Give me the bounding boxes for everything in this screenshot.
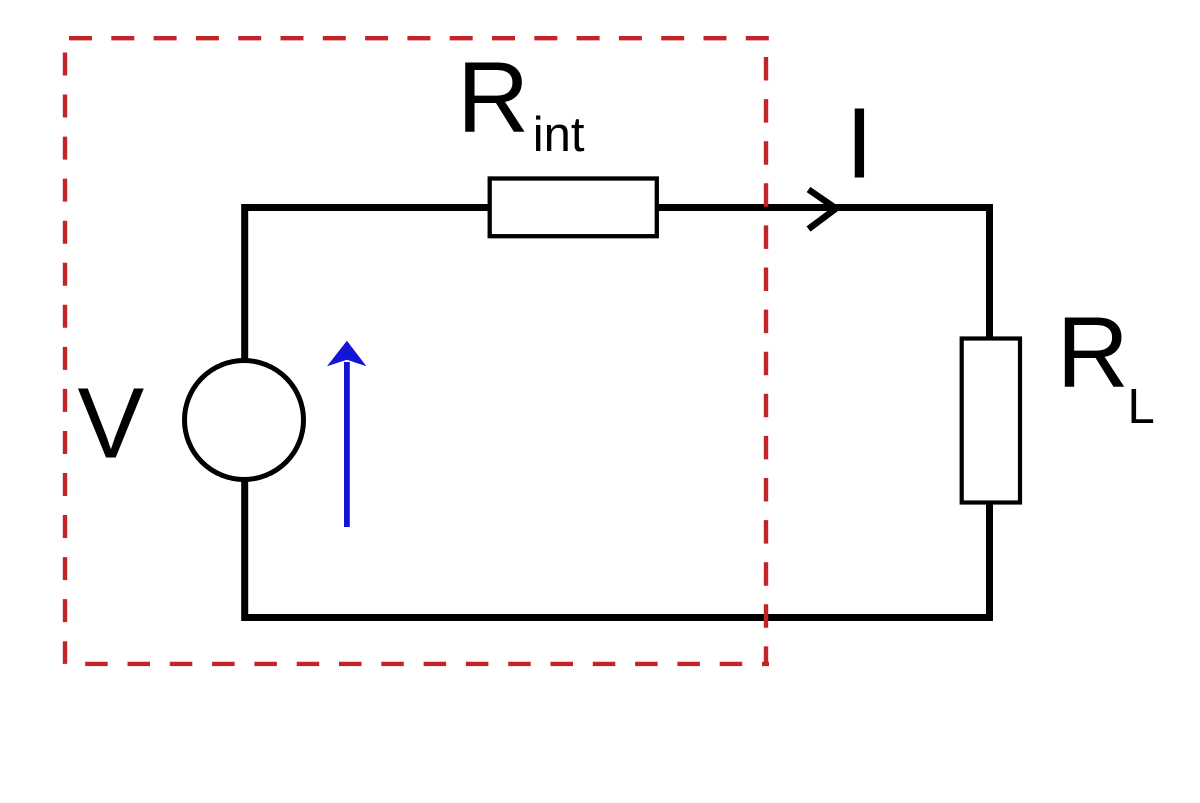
- blue emf arrow head: [327, 341, 366, 366]
- wire: V positive terminal up and top wire to R_int: [245, 208, 660, 360]
- svg-text:V: V: [78, 368, 145, 480]
- blue emf arrow shaft: [344, 362, 350, 527]
- svg-text:I: I: [846, 88, 874, 200]
- source boundary box: left edge (red dashed): [63, 53, 67, 664]
- resistor R_L (box): [962, 339, 1020, 503]
- source boundary box: bottom edge (red dashed): [85, 662, 769, 666]
- wire: R_L bottom, bottom return wire, up to V negative terminal: [245, 480, 990, 618]
- source boundary box: right edge (red dashed): [764, 57, 768, 664]
- resistor R_int (box): [490, 179, 657, 237]
- wire: R_int to top-right corner, down to R_L top: [650, 208, 990, 346]
- current direction arrowhead on top wire: [809, 190, 837, 230]
- svg-text:int: int: [533, 108, 585, 162]
- svg-text:R: R: [457, 42, 529, 154]
- svg-text:R: R: [1057, 297, 1129, 409]
- svg-text:L: L: [1128, 380, 1155, 434]
- source boundary box: top edge (red dashed): [69, 36, 769, 40]
- voltage source V (circle): [185, 361, 304, 480]
